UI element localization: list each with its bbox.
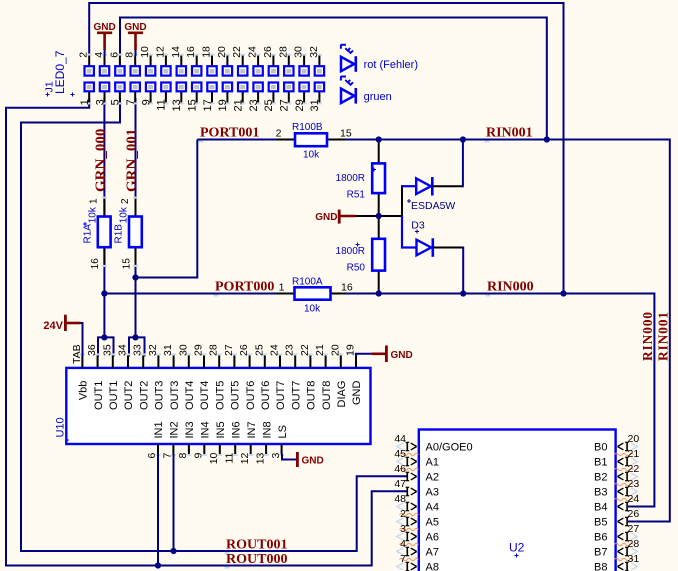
wire GRN_000 net: J1 pin3 down through R1A to U10 pins 36/35 bracket	[98, 98, 114, 357]
svg-text:23: 23	[284, 344, 296, 356]
svg-text:31: 31	[628, 553, 640, 565]
svg-text:IN5: IN5	[215, 421, 227, 438]
svg-text:7: 7	[400, 553, 406, 565]
svg-text:ESDA5W: ESDA5W	[411, 200, 455, 212]
svg-text:4: 4	[400, 538, 406, 550]
svg-text:15: 15	[121, 258, 132, 270]
U2 left pins (44,45,46,47,48,2,3,4,7 = A0-A8)	[394, 433, 472, 571]
svg-text:B3: B3	[594, 487, 607, 499]
svg-text:A3: A3	[426, 487, 439, 499]
svg-text:3: 3	[270, 452, 282, 458]
svg-text:IN2: IN2	[169, 421, 181, 438]
svg-text:OUT7: OUT7	[290, 381, 302, 410]
svg-text:21: 21	[233, 99, 245, 111]
svg-text:16: 16	[341, 282, 353, 294]
junction inner loop / RIN001 line	[544, 136, 550, 142]
svg-text:12: 12	[154, 46, 166, 58]
svg-text:OUT1: OUT1	[108, 381, 120, 410]
junction GRN_001 at U10 bracket	[132, 334, 138, 340]
svg-text:21: 21	[628, 448, 640, 460]
svg-text:20: 20	[329, 344, 341, 356]
junction GRN_000 bracket top pin35	[102, 335, 107, 340]
connector J1 pin pads and stubs	[85, 54, 325, 105]
wire PORT001 line	[197, 139, 281, 141]
resistor R100B 10k (pins 2/15)	[276, 122, 352, 161]
svg-text:GRN_001: GRN_001	[124, 129, 140, 192]
svg-text:A4: A4	[426, 502, 439, 514]
svg-text:1: 1	[89, 198, 100, 204]
wire U10 pin6 (IN1) to ROUT000	[157, 454, 159, 566]
U2 right pins (20,21,22,23,24,26,27,28,31 = B0-B8)	[594, 433, 639, 571]
wire PORT000 line	[104, 293, 281, 295]
ground GND center (between R51 and R50)	[315, 210, 356, 224]
svg-text:DIAG: DIAG	[336, 381, 348, 408]
wire J1 pin1 / ROUT000 net: left edge down, along bottom, up to U2 pin 47	[6, 98, 407, 566]
svg-text:OUT4: OUT4	[199, 381, 211, 410]
svg-text:IN6: IN6	[230, 421, 242, 438]
svg-text:16: 16	[90, 258, 101, 270]
svg-text:6: 6	[108, 52, 120, 58]
svg-text:20: 20	[628, 433, 640, 445]
wire U10 pin7 (IN2) to ROUT001	[173, 454, 175, 551]
LED gruen	[341, 77, 392, 104]
svg-text:B2: B2	[594, 472, 607, 484]
U10 bottom pin names	[153, 421, 289, 438]
svg-text:36: 36	[86, 344, 98, 356]
svg-text:1800R: 1800R	[336, 173, 365, 184]
svg-text:17: 17	[202, 99, 214, 111]
svg-text:24: 24	[247, 46, 259, 58]
svg-text:15: 15	[340, 128, 352, 140]
svg-text:11: 11	[156, 99, 168, 110]
net label hotspot marks	[199, 141, 204, 143]
svg-text:10k: 10k	[304, 304, 321, 315]
svg-text:R100B: R100B	[292, 122, 323, 133]
svg-text:R51: R51	[347, 190, 366, 201]
svg-text:OUT1: OUT1	[93, 381, 105, 410]
svg-text:32: 32	[147, 344, 159, 356]
svg-text:A0/GOE0: A0/GOE0	[426, 442, 473, 454]
svg-text:IN7: IN7	[246, 421, 258, 438]
svg-text:1: 1	[79, 99, 91, 105]
svg-text:34: 34	[117, 344, 129, 356]
svg-text:B8: B8	[594, 562, 607, 571]
wire U10 pin19 (GND) to ground	[356, 354, 371, 357]
svg-text:ROUT000: ROUT000	[226, 552, 287, 567]
junction diode upper / RIN001 line	[460, 136, 466, 142]
svg-text:OUT8: OUT8	[321, 381, 333, 410]
wire 24V to U10 TAB pin	[81, 323, 83, 357]
resistor R50 1800R	[336, 216, 385, 292]
svg-text:IN8: IN8	[261, 421, 273, 438]
resistor R100A 10k (pins 1/16)	[277, 276, 353, 314]
svg-text:15: 15	[187, 99, 199, 111]
svg-text:4: 4	[93, 52, 105, 58]
U10 top pin numbers	[71, 344, 357, 364]
IC U10 body	[66, 368, 370, 444]
svg-text:28: 28	[208, 344, 220, 356]
svg-text:25: 25	[263, 99, 275, 111]
svg-text:A8: A8	[426, 562, 439, 571]
svg-text:10k: 10k	[303, 150, 320, 161]
svg-text:gruen: gruen	[364, 91, 392, 103]
wire J1 pin5 / ROUT001 net: left edge down, along bottom, up to U2 pin 46	[21, 98, 407, 551]
wire GRN_001 net: J1 pin7 down through R1B to U10 pins 34/33 bracket	[129, 98, 145, 357]
svg-text:R1A: R1A	[83, 224, 94, 244]
svg-text:7: 7	[162, 452, 174, 458]
svg-text:6: 6	[146, 452, 158, 458]
wire J1 pin6 to RIN001 net (inner top loop)	[120, 18, 547, 140]
svg-text:22: 22	[231, 46, 243, 58]
junction outer loop / RIN000 line	[560, 290, 566, 296]
U10 top pin stubs	[80, 353, 359, 368]
svg-text:3: 3	[400, 523, 406, 535]
svg-text:A7: A7	[426, 547, 439, 559]
svg-text:Vbb: Vbb	[78, 381, 90, 401]
svg-text:GND: GND	[302, 455, 324, 466]
svg-text:12: 12	[239, 452, 251, 464]
svg-text:23: 23	[248, 99, 260, 111]
svg-text:11: 11	[223, 452, 235, 463]
svg-text:9: 9	[140, 99, 152, 105]
svg-text:8: 8	[177, 452, 189, 458]
svg-text:27: 27	[279, 99, 291, 111]
svg-text:19: 19	[345, 344, 357, 356]
svg-text:27: 27	[223, 344, 235, 356]
svg-text:OUT7: OUT7	[275, 381, 287, 410]
power 24V symbol	[43, 315, 80, 332]
svg-text:OUT6: OUT6	[245, 381, 257, 410]
svg-text:ROUT001: ROUT001	[226, 538, 287, 553]
svg-text:OUT2: OUT2	[138, 381, 150, 410]
resistor R51 1800R	[336, 141, 385, 216]
svg-text:26: 26	[262, 46, 274, 58]
junction R51 top / PORT001 line	[376, 136, 382, 142]
svg-text:8: 8	[124, 52, 136, 58]
svg-text:R1B: R1B	[114, 224, 125, 244]
svg-text:23: 23	[628, 478, 640, 490]
svg-text:1800R: 1800R	[336, 246, 365, 257]
svg-text:B1: B1	[594, 457, 607, 469]
svg-text:OUT3: OUT3	[169, 381, 181, 410]
junction R1A / PORT000	[101, 290, 107, 296]
svg-text:D3: D3	[411, 220, 425, 232]
svg-text:16: 16	[185, 46, 197, 58]
svg-text:RIN001: RIN001	[486, 126, 533, 141]
svg-text:U2: U2	[509, 541, 525, 555]
svg-text:32: 32	[308, 46, 320, 58]
junction R50 bottom / PORT000 line	[376, 290, 382, 296]
junction GRN_000 at U10 bracket	[101, 334, 107, 340]
junction R1B / PORT001 riser	[132, 274, 138, 280]
svg-text:10k: 10k	[87, 206, 98, 223]
ground GND at U10 pin 3	[297, 452, 323, 467]
svg-text:28: 28	[628, 538, 640, 550]
junction U10 pin7 / ROUT001	[170, 548, 176, 554]
svg-text:PORT001: PORT001	[200, 126, 259, 141]
svg-text:OUT2: OUT2	[123, 381, 135, 410]
svg-text:B5: B5	[594, 517, 607, 529]
svg-text:35: 35	[101, 344, 113, 356]
svg-text:47: 47	[394, 478, 406, 490]
svg-text:10: 10	[208, 452, 220, 464]
ground GND at U10 pin 19	[371, 346, 412, 363]
svg-text:24: 24	[628, 493, 640, 505]
svg-text:27: 27	[628, 523, 640, 535]
svg-text:31: 31	[309, 99, 321, 111]
svg-text:5: 5	[110, 99, 122, 105]
svg-text:OUT3: OUT3	[154, 381, 166, 410]
LED rot (Fehler)	[341, 45, 418, 72]
svg-text:7: 7	[125, 99, 137, 105]
wire U10 pin3 (LS) to ground	[282, 454, 296, 460]
svg-text:28: 28	[277, 46, 289, 58]
svg-text:19: 19	[217, 99, 229, 111]
svg-text:14: 14	[170, 46, 182, 58]
resistor R1B 10k (pins 2/15)	[114, 197, 142, 270]
svg-text:31: 31	[162, 344, 174, 356]
wire R1B bottom to PORT001 line (riser at x=197)	[136, 140, 198, 278]
J1 pin numbers top (even 2-32)	[78, 46, 320, 58]
svg-text:GND: GND	[315, 212, 337, 223]
diode D3 lower (ESDA5W)	[402, 216, 463, 257]
svg-text:A1: A1	[426, 457, 439, 469]
svg-text:R100A: R100A	[292, 276, 323, 287]
svg-text:OUT4: OUT4	[184, 381, 196, 410]
wire J1 pin2 to RIN000 net (outer top loop)	[89, 3, 563, 294]
svg-text:OUT5: OUT5	[230, 381, 242, 410]
svg-text:IN1: IN1	[153, 421, 165, 438]
svg-text:9: 9	[193, 452, 205, 458]
svg-text:OUT6: OUT6	[260, 381, 272, 410]
svg-text:OUT8: OUT8	[306, 381, 318, 410]
svg-text:48: 48	[394, 493, 406, 505]
svg-text:29: 29	[294, 99, 306, 111]
svg-text:24: 24	[269, 344, 281, 356]
svg-text:PORT000: PORT000	[215, 280, 274, 295]
svg-text:22: 22	[299, 344, 311, 356]
svg-text:20: 20	[216, 46, 228, 58]
svg-text:22: 22	[628, 463, 640, 475]
svg-text:45: 45	[394, 448, 406, 460]
J1 pin numbers bottom (odd 1-31)	[79, 99, 321, 111]
svg-text:B6: B6	[594, 532, 607, 544]
svg-text:IN4: IN4	[200, 421, 212, 438]
svg-text:21: 21	[314, 344, 326, 356]
resistor R1A 10k (pins 1/16)	[83, 197, 111, 270]
svg-text:26: 26	[628, 508, 640, 520]
svg-text:GND: GND	[391, 350, 413, 361]
IC U2 body	[419, 430, 616, 571]
svg-text:RIN001: RIN001	[656, 311, 671, 361]
svg-text:2: 2	[78, 52, 90, 58]
svg-text:GRN_000: GRN_000	[93, 129, 109, 192]
svg-text:A5: A5	[426, 517, 439, 529]
svg-text:24V: 24V	[43, 320, 63, 332]
svg-text:25: 25	[253, 344, 265, 356]
svg-text:B4: B4	[594, 502, 607, 514]
svg-text:2: 2	[276, 128, 282, 140]
svg-text:RIN000: RIN000	[487, 280, 534, 295]
svg-text:A6: A6	[426, 532, 439, 544]
svg-text:2: 2	[120, 198, 131, 204]
wire RIN001 line to right edge and down to U2 pin 26 (B5)	[346, 140, 670, 522]
svg-text:13: 13	[254, 452, 266, 464]
svg-text:OUT5: OUT5	[214, 381, 226, 410]
U10 bottom pin numbers	[146, 452, 282, 464]
svg-text:29: 29	[193, 344, 205, 356]
wire diode upper cathode to RIN001	[462, 140, 464, 188]
svg-text:10k: 10k	[119, 206, 130, 223]
svg-text:TAB: TAB	[71, 344, 83, 364]
wire diode lower cathode to RIN000	[462, 247, 464, 294]
svg-text:2: 2	[400, 508, 406, 520]
U10 bottom pin stubs	[156, 444, 285, 456]
svg-text:IN3: IN3	[184, 421, 196, 438]
wire RIN000 line to right and down to U2 pin 24 (B4)	[346, 294, 655, 507]
diode D3 upper (ESDA5W)	[401, 177, 463, 216]
svg-text:A2: A2	[426, 472, 439, 484]
svg-text:46: 46	[394, 463, 406, 475]
junction diode lower / RIN000 line	[460, 290, 466, 296]
svg-text:26: 26	[238, 344, 250, 356]
ground GND at J1 pin 8	[124, 22, 146, 56]
wire GND row to diode pair	[356, 215, 402, 217]
svg-text:LED0_7: LED0_7	[53, 50, 67, 94]
junction U10 pin6 / ROUT000	[155, 562, 161, 568]
svg-text:30: 30	[293, 46, 305, 58]
svg-text:3: 3	[94, 99, 106, 105]
svg-text:GND: GND	[351, 381, 363, 406]
svg-text:LS: LS	[277, 425, 289, 438]
U10 top pin names	[78, 381, 364, 410]
svg-text:18: 18	[201, 46, 213, 58]
svg-text:U10: U10	[55, 417, 67, 437]
svg-text:13: 13	[171, 99, 183, 111]
svg-text:30: 30	[177, 344, 189, 356]
svg-text:10: 10	[139, 46, 151, 58]
junction R51/R50/GND row	[376, 213, 382, 219]
svg-text:1: 1	[279, 282, 285, 294]
svg-text:B0: B0	[594, 442, 607, 454]
svg-text:44: 44	[394, 433, 406, 445]
svg-text:RIN000: RIN000	[640, 311, 655, 361]
svg-text:33: 33	[132, 344, 144, 356]
svg-text:rot (Fehler): rot (Fehler)	[364, 59, 418, 71]
svg-text:R50: R50	[347, 263, 366, 274]
svg-text:B7: B7	[594, 547, 607, 559]
ground GND at J1 pin 4	[93, 22, 115, 56]
